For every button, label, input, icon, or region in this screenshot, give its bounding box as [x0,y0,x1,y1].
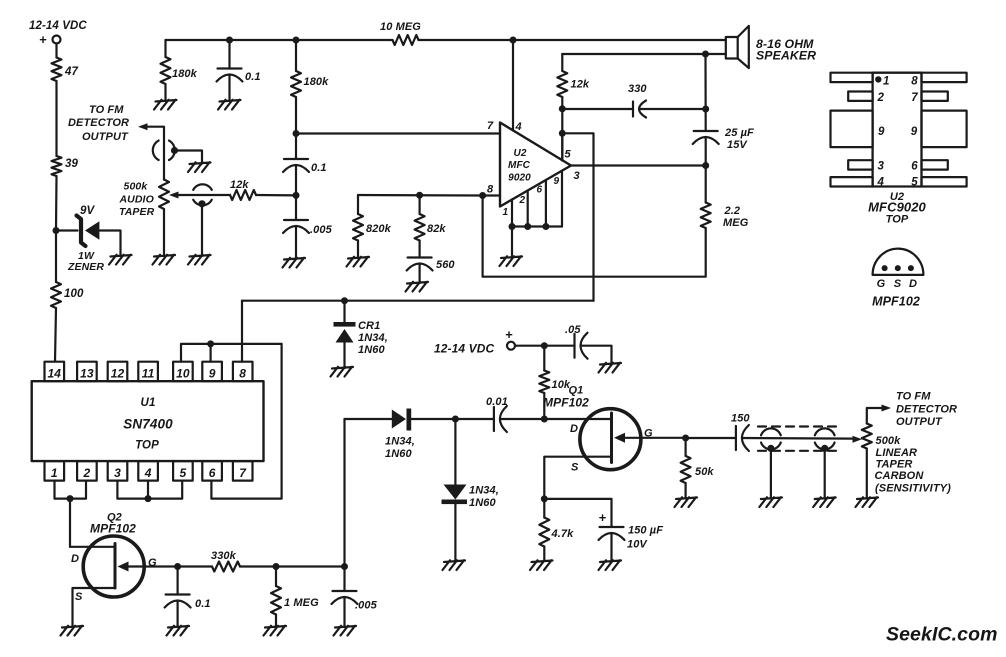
svg-text:1 MEG: 1 MEG [284,597,319,609]
ground [599,560,622,570]
ground [334,626,357,636]
wire [705,137,707,203]
svg-text:6: 6 [537,185,543,196]
svg-text:12-14 VDC: 12-14 VDC [29,20,87,32]
node [559,130,566,137]
wire [824,448,826,498]
svg-text:MPF102: MPF102 [90,522,136,536]
svg-text:.005: .005 [310,224,333,236]
svg-text:10: 10 [176,367,190,381]
U1 pin 5 box [173,461,193,481]
jack shell [815,428,835,435]
svg-text:1: 1 [883,76,890,88]
svg-text:DETECTOR: DETECTOR [68,117,129,129]
node [341,563,348,570]
svg-text:TAPER: TAPER [119,206,155,218]
svg-text:0.1: 0.1 [311,162,327,174]
wire [357,195,359,214]
IC U1 SN7400 body [32,381,264,461]
wire [562,108,633,110]
pin 6 stub [545,180,547,227]
node [67,495,74,502]
resistor 12k [230,190,256,200]
svg-text:2: 2 [83,466,91,480]
svg-text:10V: 10V [627,539,648,551]
svg-text:5: 5 [180,466,187,480]
Q2 source lead [73,588,116,627]
wire [543,393,545,419]
wire [419,39,726,41]
svg-text:15V: 15V [727,139,748,151]
wire [543,346,545,371]
wire [343,343,345,369]
svg-text:330k: 330k [211,550,237,562]
capacitor 0.1 q2 [166,593,190,595]
svg-text:4.7k: 4.7k [551,528,575,540]
U1 pin 14 box [45,362,65,382]
svg-text:+: + [505,327,513,342]
arrow to FM detector right [882,405,892,412]
svg-text:+: + [599,510,607,525]
wire [411,418,494,420]
pin 7 lead [922,92,948,101]
terminal [507,342,515,350]
wire [343,567,345,592]
Q1 source lead [544,457,611,499]
capacitor .05 [573,334,575,358]
svg-text:S: S [571,462,579,474]
wire y54 to speaker [562,53,726,55]
resistor 100 [51,282,61,308]
resistor 10k [539,371,549,394]
speaker 8-16 OHM [726,37,738,59]
wire [704,54,706,131]
U1 pin 11 box [138,362,158,382]
node [559,105,566,112]
zener diode D1 9V 1W [77,216,86,247]
ground [109,255,132,265]
wire [419,264,421,284]
wire [543,499,545,518]
node [416,192,423,199]
wire [228,40,230,69]
ground [530,560,553,570]
node [682,435,689,442]
svg-text:D: D [909,278,917,290]
capacitor 560 [408,256,432,258]
svg-text:9V: 9V [80,205,95,217]
wire right side down [211,344,281,499]
svg-text:2.2: 2.2 [724,205,741,217]
wire [295,97,297,134]
wire [543,547,545,562]
pin 1 stub [511,200,513,227]
svg-text:OUTPUT: OUTPUT [896,416,943,428]
U1 pin 2 box [77,461,97,481]
svg-text:150 µF: 150 µF [628,525,663,537]
resistor 330k [212,562,240,572]
U1 pin 7 box [233,461,253,481]
svg-text:G: G [644,428,653,440]
U1 pin 6 box [202,461,222,481]
arrow to FM detector [138,123,148,130]
svg-text:180k: 180k [304,76,330,88]
svg-text:12k: 12k [571,79,590,91]
resistor 47 [52,58,62,82]
svg-text:11: 11 [142,367,155,381]
svg-text:SPEAKER: SPEAKER [756,49,816,63]
wire pin7 feed [296,132,500,134]
svg-text:2: 2 [519,195,526,206]
ground [188,162,211,172]
resistor 1 MEG [271,586,281,615]
svg-text:9: 9 [554,176,560,187]
wire pin10-9 bus [181,344,282,362]
potentiometer 500k AUDIO TAPER [159,180,169,210]
wire pin4 drop [512,40,514,131]
wire [345,418,392,420]
wire [56,229,78,231]
wire [581,346,612,364]
pin 8 wire [483,194,500,196]
wire corner to gate net [343,419,345,567]
svg-text:MPF102: MPF102 [872,295,920,309]
svg-text:150: 150 [731,413,750,425]
svg-text:.05: .05 [565,324,581,336]
svg-text:7: 7 [911,92,918,104]
wiper arrow [169,192,179,199]
svg-text:TAPER: TAPER [876,459,913,471]
node [207,340,214,347]
resistor 50k [681,456,691,483]
svg-text:25 µF: 25 µF [724,127,754,139]
resistor 820k [353,214,363,241]
svg-text:6: 6 [209,466,216,480]
svg-text:S: S [894,278,902,290]
wire [454,504,456,561]
svg-text:9: 9 [209,367,216,381]
svg-text:4: 4 [144,466,152,480]
svg-text:12k: 12k [230,179,249,191]
capacitor 150 [735,426,737,450]
ground [406,282,429,292]
pin 3 lead [848,160,872,169]
svg-text:2: 2 [877,92,885,104]
node [510,37,517,44]
capacitor 25 uF 15V [694,130,718,132]
svg-text:D: D [570,423,578,435]
svg-text:4: 4 [515,121,522,133]
U2 output wire [571,164,706,166]
node [174,563,181,570]
svg-text:G: G [877,278,886,290]
U1 pin 13 box [77,362,97,382]
ground [500,256,523,266]
wire [100,231,121,257]
wire [295,165,297,195]
wire [358,194,483,197]
node [541,342,548,349]
node [702,162,709,169]
svg-text:47: 47 [64,66,78,78]
node [702,106,709,113]
svg-text:560: 560 [436,259,455,271]
wire long feedback [242,300,594,302]
node [452,416,459,423]
ground [599,363,622,373]
terminal 12-14 VDC [53,36,61,44]
wire [343,597,345,627]
wire [295,134,297,160]
svg-text:39: 39 [65,158,78,170]
U1 pin 12 box [108,362,128,382]
svg-text:MEG: MEG [723,217,749,229]
svg-text:4: 4 [877,177,885,189]
svg-text:.005: .005 [355,600,378,612]
svg-text:1N34,: 1N34, [358,332,388,344]
node jack sleeve [767,445,774,452]
wire [867,408,882,424]
svg-text:3: 3 [878,161,885,173]
svg-text:14: 14 [48,367,62,381]
svg-text:OUTPUT: OUTPUT [82,131,129,143]
ground [188,255,211,265]
transistor Q2 MPF102 [83,536,144,597]
wire [454,419,456,485]
ground [264,626,287,636]
svg-text:1N34,: 1N34, [469,485,499,497]
wire pin9 stub [210,344,212,362]
node [509,223,516,230]
svg-text:TO FM: TO FM [896,391,931,403]
wire [515,345,575,347]
svg-text:1N60: 1N60 [358,344,385,356]
svg-text:9020: 9020 [508,173,531,184]
wire [343,301,345,322]
MPF102 case outline [873,249,924,275]
transistor Q1 MPF102 [580,409,641,470]
svg-text:13: 13 [80,367,94,381]
pin 9 right tab [922,111,967,148]
wire [295,226,297,259]
pin 2 lead [848,92,872,101]
wire [610,533,612,561]
wire [55,44,57,58]
svg-text:S: S [75,591,83,603]
svg-text:G: G [148,557,157,569]
capacitor .005 q2 [333,590,357,592]
wire [770,448,772,498]
wire [275,615,277,627]
resistor 39 [52,156,62,176]
jack shell [761,428,781,435]
diode 1N34 shunt [444,485,467,500]
node [541,495,548,502]
Q2 drain lead [70,546,115,548]
node [226,37,233,44]
ground [61,626,84,636]
wire [201,204,203,256]
svg-text:CARBON: CARBON [875,470,925,482]
wire [561,97,563,161]
pin 9 stub [561,171,563,227]
wire [544,499,611,527]
wire [175,151,203,164]
capacitor 0.1 second [284,158,308,160]
wire [562,133,593,300]
svg-text:MFC9020: MFC9020 [868,200,926,215]
ground [153,255,176,265]
svg-text:820k: 820k [366,223,392,235]
node [293,192,300,199]
wire [69,499,71,547]
U1 pin 10 box [173,362,193,382]
wire [684,483,686,498]
svg-text:1N60: 1N60 [385,448,412,460]
node CR1 tap [341,297,348,304]
svg-text:TOP: TOP [135,440,159,452]
node jack J2 sleeve [198,200,205,207]
svg-text:1: 1 [503,207,509,218]
svg-text:180k: 180k [172,68,198,80]
wire [419,195,421,214]
wire pin8 up [241,301,243,362]
ground [675,497,698,507]
jack J2 shell [193,184,212,190]
node [273,563,280,570]
wire [684,438,686,456]
svg-text:82k: 82k [427,223,446,235]
svg-text:50k: 50k [695,466,714,478]
svg-text:3: 3 [114,466,121,480]
svg-text:0.1: 0.1 [245,71,261,83]
node [541,416,548,423]
diode CR1 1N34 1N60 [334,322,356,327]
svg-text:MFC: MFC [508,160,531,171]
wire [164,84,166,101]
wire [228,75,230,102]
svg-text:9: 9 [911,126,918,138]
wire [240,565,276,567]
svg-text:DETECTOR: DETECTOR [896,404,957,416]
wire [256,194,296,197]
pin 2 stub [527,191,529,227]
pin 8 lead [922,73,967,82]
svg-text:U2: U2 [514,148,527,159]
node [293,130,300,137]
potentiometer 500k LINEAR TAPER [862,424,872,449]
shield dashes [758,425,837,427]
svg-text:U1: U1 [141,397,156,409]
resistor 4.7k [539,518,549,547]
U1 pin 8 box [233,362,253,382]
svg-text:SeekIC.com: SeekIC.com [886,624,998,646]
svg-text:0.01: 0.01 [486,396,508,408]
capacitor 330 [632,102,634,117]
svg-text:3: 3 [574,170,580,182]
wire [742,437,853,440]
svg-text:6: 6 [911,161,918,173]
svg-text:5: 5 [911,177,918,189]
svg-text:9: 9 [878,126,885,138]
resistor 2.2 MEG [701,203,711,229]
ground [167,626,190,636]
ground [813,497,836,507]
diode 1N34 series [392,410,406,429]
capacitor 0.01 [493,407,495,431]
svg-text:500k: 500k [876,435,902,447]
node zener junction [53,227,60,234]
U2 ground bus [512,225,562,227]
wire pins 1-2 [55,481,87,499]
node [145,495,152,502]
capacitor 150 uF 10V [600,526,624,528]
svg-text:5: 5 [565,149,572,161]
svg-text:MPF102: MPF102 [543,396,589,410]
svg-text:500k: 500k [124,181,149,193]
svg-text:8: 8 [911,76,918,88]
resistor 180k second [291,71,301,97]
svg-text:TOP: TOP [886,214,909,226]
pin 6 lead [922,160,948,169]
node [293,37,300,44]
wire [295,40,297,71]
U1 pin 1 box [45,461,65,481]
svg-text:8: 8 [239,367,246,381]
node pin8 [479,192,486,199]
svg-text:12-14 VDC: 12-14 VDC [434,342,494,356]
pin 5 stub [561,133,563,160]
svg-text:1N34,: 1N34, [385,436,415,448]
svg-text:10 MEG: 10 MEG [380,21,421,33]
wire [166,39,393,41]
U1 pin 9 box [202,362,222,382]
wire [177,601,179,627]
svg-text:ZENER: ZENER [67,261,104,273]
svg-text:LINEAR: LINEAR [876,447,918,459]
wire pin4 stub [147,481,149,499]
wire feedback [483,196,706,277]
wire [177,567,179,595]
node jack sleeve [821,445,828,452]
ground [347,257,370,267]
wire [55,176,58,231]
pin 4 lead [831,177,873,186]
resistor 180k first [161,57,171,84]
svg-text:330: 330 [628,83,647,95]
wire [561,54,563,71]
resistor 10 MEG [393,35,419,45]
wire pins 3-4-5 [117,481,182,499]
ground [283,258,306,268]
ground [443,560,466,570]
wire [178,565,212,567]
svg-text:CR1: CR1 [358,320,380,332]
svg-text:TO FM: TO FM [89,104,124,116]
ground [154,100,177,110]
svg-text:(SENSITIVITY): (SENSITIVITY) [875,483,951,495]
wire [295,195,297,220]
wire [275,567,277,587]
op-amp U2 MFC9020 [500,123,571,207]
wire [55,308,56,362]
svg-text:1N60: 1N60 [469,497,496,509]
svg-text:+: + [39,32,47,47]
svg-text:D: D [71,553,79,565]
svg-text:7: 7 [487,120,494,132]
svg-text:8: 8 [487,184,494,196]
wire [147,127,164,180]
